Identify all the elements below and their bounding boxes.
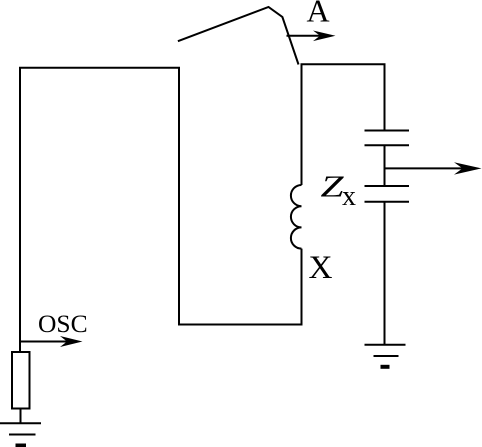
svg-text:X: X: [309, 250, 333, 286]
svg-text:x: x: [342, 181, 356, 212]
svg-text:A: A: [307, 0, 330, 29]
svg-text:Z: Z: [321, 169, 345, 204]
svg-text:OSC: OSC: [38, 309, 88, 338]
